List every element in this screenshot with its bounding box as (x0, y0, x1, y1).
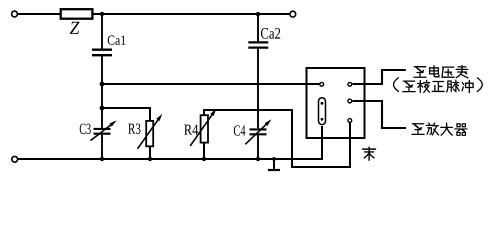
node junction rail-R3 (148, 157, 152, 161)
resistor R4 (201, 115, 208, 142)
label Ca1 (108, 35, 126, 44)
terminal input top-left (12, 11, 18, 17)
node junction rail-R4 (202, 157, 206, 161)
wire horizontal R4-C4 top link to detour (204, 110, 350, 167)
jack pin dot upper (321, 102, 324, 105)
node junction A at y108 (100, 106, 105, 111)
contact pin left top (320, 82, 324, 86)
capacitor C4 plates (250, 129, 267, 134)
terminal input bottom-left (12, 156, 18, 162)
node junction rail-ground (272, 157, 276, 161)
wire jack stem through box bottom (321, 126, 323, 140)
label R3 (128, 124, 140, 134)
wire R3 bottom to rail (149, 146, 151, 159)
wire circle3 stem through box bottom (349, 123, 351, 140)
label to-calibration-pulse line2 (394, 78, 483, 93)
wire pin2 to amplifier label (352, 101, 406, 128)
label to-voltmeter line1 (414, 66, 468, 78)
wire vertical branch A middle (Ca1 to C3) (101, 56, 103, 128)
ground (268, 159, 280, 170)
resistor R3 variable arrow (138, 114, 163, 149)
capacitor Ca1 (92, 50, 112, 56)
wire bottom rail with rise to jack (18, 126, 322, 159)
wire pin1 to voltmeter label (352, 70, 405, 84)
resistor Z (61, 9, 93, 19)
node junction top of Ca1 branch (100, 12, 104, 16)
contact pin right top (348, 82, 352, 86)
label to-amplifier (412, 123, 467, 135)
capacitor C3 variable arrow (91, 120, 117, 140)
wire R4 bottom to rail (203, 143, 205, 159)
wire top rail (18, 13, 289, 15)
resistor R3 (146, 121, 153, 146)
node junction top of Ca2 branch (256, 12, 260, 16)
contact pin right bottom (348, 119, 352, 123)
wire horizontal node1 to switch (y84) (102, 83, 320, 85)
contact pin right middle (348, 99, 352, 103)
label Z (70, 22, 80, 34)
jack pin dot lower (321, 118, 324, 121)
wire vertical branch A lower (C3 to bottom rail) (101, 135, 103, 159)
jack contact stadium (319, 98, 326, 125)
terminal output top-right (290, 11, 296, 17)
resistor R4 variable arrow (190, 109, 216, 146)
capacitor C4 variable arrow (245, 119, 271, 144)
node junction A at y84 (100, 82, 105, 87)
capacitor C3 plates (94, 129, 111, 134)
wire node1 into switch box (302, 83, 320, 85)
wire horizontal C3-R3 top link (102, 108, 150, 121)
wire vertical branch B upper (top rail to Ca2) (257, 14, 259, 41)
label C3 (80, 124, 91, 134)
node junction rail-C4 (256, 157, 260, 161)
label mo (end) (363, 147, 376, 160)
label R4 (184, 125, 198, 135)
node junction rail-C3 (100, 157, 104, 161)
label C4 (234, 125, 246, 135)
wire vertical branch B lower (C4 to bottom rail) (257, 135, 259, 159)
label Ca2 (261, 28, 280, 39)
wire vertical branch A upper (top rail to Ca1) (101, 14, 103, 49)
wire vertical branch B middle (Ca2 to C4) (257, 49, 259, 129)
capacitor Ca2 (248, 42, 268, 47)
switch box (307, 68, 365, 138)
